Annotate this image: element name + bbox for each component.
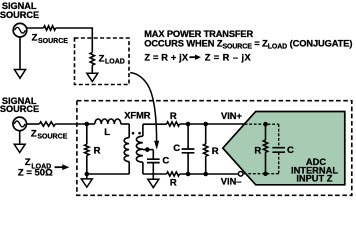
transformer phasing dot primary — [132, 132, 135, 135]
note arrow — [190, 56, 196, 58]
inductor L — [87, 123, 95, 125]
wire source to resistor (bottom) — [27, 123, 40, 125]
svg-text:VIN–: VIN– — [221, 176, 242, 186]
ground R1 — [81, 179, 92, 187]
svg-text:C: C — [287, 145, 294, 156]
dashed internal top rail — [245, 123, 279, 125]
transformer T1 secondary — [142, 124, 144, 136]
svg-text:MAX POWER TRANSFER: MAX POWER TRANSFER — [144, 29, 253, 39]
series resistor R3 bottom rail — [167, 172, 180, 176]
big dashed network box — [77, 101, 352, 196]
dashed box around Z_LOAD (top) — [75, 38, 130, 85]
ground secondary — [148, 179, 159, 187]
node dot C3 top — [186, 122, 191, 127]
AC source V1 (top) — [13, 23, 27, 37]
node dot R5 top — [263, 122, 268, 127]
wire source V2 to ground — [19, 131, 21, 144]
ground Z_LOAD (top) — [87, 73, 98, 81]
ground source (bottom) — [14, 144, 25, 152]
svg-text:OCCURS WHEN ZSOURCE = ZLOAD (C: OCCURS WHEN ZSOURCE = ZLOAD (CONJUGATE) — [144, 39, 352, 51]
wire source to resistor (top) — [26, 27, 43, 29]
resistor Z_LOAD (top) — [90, 53, 94, 66]
series resistor R2 top rail — [167, 122, 180, 126]
dashed internal bottom rail — [243, 173, 279, 175]
wire secondary top rail — [143, 123, 167, 125]
open circle node VIN- — [238, 172, 243, 177]
node dot C3 bottom — [186, 172, 191, 177]
resistor Z_SOURCE (top) — [44, 26, 56, 30]
svg-text:XFMR: XFMR — [124, 111, 151, 121]
wire secondary bottom rail — [143, 173, 167, 175]
resistor Z_SOURCE (bottom) — [39, 122, 55, 126]
node dot tap — [145, 147, 150, 152]
svg-text:LOAD: LOAD — [105, 59, 125, 66]
node dot rail/R1 top — [85, 122, 90, 127]
svg-text:R: R — [170, 178, 177, 189]
shunt resistor R4 — [205, 124, 207, 144]
internal capacitor C4 plates — [272, 148, 285, 153]
svg-text:Z = R – jX: Z = R – jX — [205, 52, 252, 62]
node dot R5 bottom — [263, 171, 268, 176]
svg-text:SOURCE: SOURCE — [0, 104, 39, 114]
node dot rail/R1 bottom — [85, 172, 90, 177]
transformer phasing dot secondary — [138, 132, 141, 135]
Z_LOAD annotation arrow — [55, 166, 64, 168]
ground source (top) — [14, 70, 25, 79]
dashed internal right branch lower — [278, 152, 280, 174]
svg-text:R: R — [212, 146, 219, 157]
svg-text:R: R — [94, 145, 101, 156]
AC source V2 (bottom) — [13, 117, 27, 131]
node dot R4 bottom — [203, 172, 208, 177]
svg-text:C: C — [173, 143, 180, 154]
node dot R4 top — [203, 122, 208, 127]
svg-text:SOURCE: SOURCE — [37, 134, 67, 141]
svg-text:Z = R + jX: Z = R + jX — [144, 52, 189, 62]
curved arrow from Z_LOAD box to C node — [130, 73, 156, 142]
wire bottom rail to transformer primary — [87, 173, 129, 175]
wire source to ground (top) — [19, 37, 21, 70]
internal resistor R5 — [265, 124, 267, 140]
svg-text:Z = 50Ω: Z = 50Ω — [18, 167, 53, 178]
wire bottom rail to open node — [180, 173, 239, 175]
wire resistor into box (bottom) — [55, 123, 87, 125]
svg-text:SOURCE: SOURCE — [0, 10, 39, 20]
svg-text:VIN+: VIN+ — [221, 111, 242, 121]
shunt resistor R1 left — [86, 124, 88, 144]
svg-text:Z: Z — [31, 128, 37, 139]
secondary center tap wire — [143, 149, 153, 151]
transformer T1 primary — [128, 124, 130, 138]
svg-text:L: L — [104, 127, 110, 138]
green ADC pentagon — [223, 112, 345, 185]
dashed internal right branch upper — [278, 124, 280, 148]
svg-text:Z: Z — [25, 157, 31, 168]
capacitor C2 on tap — [152, 150, 154, 160]
shunt capacitor C3 — [187, 124, 189, 149]
svg-text:INPUT Z: INPUT Z — [296, 173, 332, 183]
wire resistor to corner and down (top) — [56, 28, 93, 53]
wire secondary rail to ground — [152, 174, 154, 179]
svg-text:R: R — [254, 146, 261, 157]
svg-text:SOURCE: SOURCE — [38, 38, 68, 45]
svg-text:C: C — [162, 155, 169, 166]
wire Z_LOAD to ground (top) — [91, 65, 93, 73]
wire R1 to ground — [86, 174, 88, 179]
wire top rail to green shape — [180, 123, 245, 125]
svg-text:Z: Z — [99, 54, 105, 65]
svg-text:R: R — [170, 111, 177, 122]
svg-text:Z: Z — [32, 33, 38, 44]
